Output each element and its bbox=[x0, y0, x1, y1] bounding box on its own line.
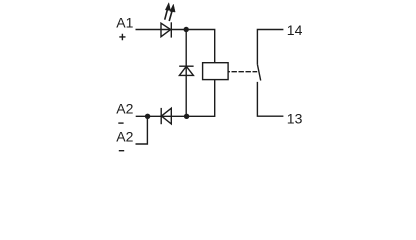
svg-text:A2: A2 bbox=[116, 129, 133, 145]
LED light arrow 2 bbox=[169, 4, 175, 21]
wire A2 to coil bottom (through D3) bbox=[136, 80, 215, 117]
diode D3 cathode bar bbox=[160, 108, 162, 124]
wire contact terminal 13 bbox=[257, 82, 283, 116]
freewheeling diode D2 cathode bar bbox=[179, 65, 193, 67]
minus sign (lower A2 polarity) bbox=[119, 150, 124, 152]
switch contact lever (NO contact) bbox=[257, 64, 260, 80]
diode D3 triangle bbox=[161, 108, 171, 124]
svg-text:A2: A2 bbox=[116, 101, 133, 117]
relay coil K1 bbox=[203, 63, 229, 80]
wire freewheel branch (node A down to node B) bbox=[185, 30, 187, 117]
wire A1 to coil top (through LED) bbox=[136, 30, 215, 63]
junction node A (top) bbox=[184, 27, 189, 32]
plus sign (A1 polarity) bbox=[119, 34, 125, 41]
svg-text:13: 13 bbox=[287, 110, 303, 126]
freewheeling diode D2 triangle bbox=[179, 66, 193, 75]
LED light arrow 1 bbox=[165, 3, 171, 20]
wire lower A2 terminal up to node C bbox=[136, 116, 148, 144]
LED D1 triangle bbox=[161, 23, 171, 37]
junction node B bbox=[184, 114, 189, 119]
mechanical link dashed line (coil to contact) bbox=[228, 71, 257, 73]
svg-text:14: 14 bbox=[287, 22, 303, 38]
minus sign (upper A2 polarity) bbox=[118, 122, 123, 124]
svg-text:A1: A1 bbox=[116, 14, 133, 30]
wire contact terminal 14 bbox=[257, 30, 283, 65]
LED D1 cathode bar bbox=[170, 22, 172, 37]
junction node C bbox=[145, 114, 150, 119]
